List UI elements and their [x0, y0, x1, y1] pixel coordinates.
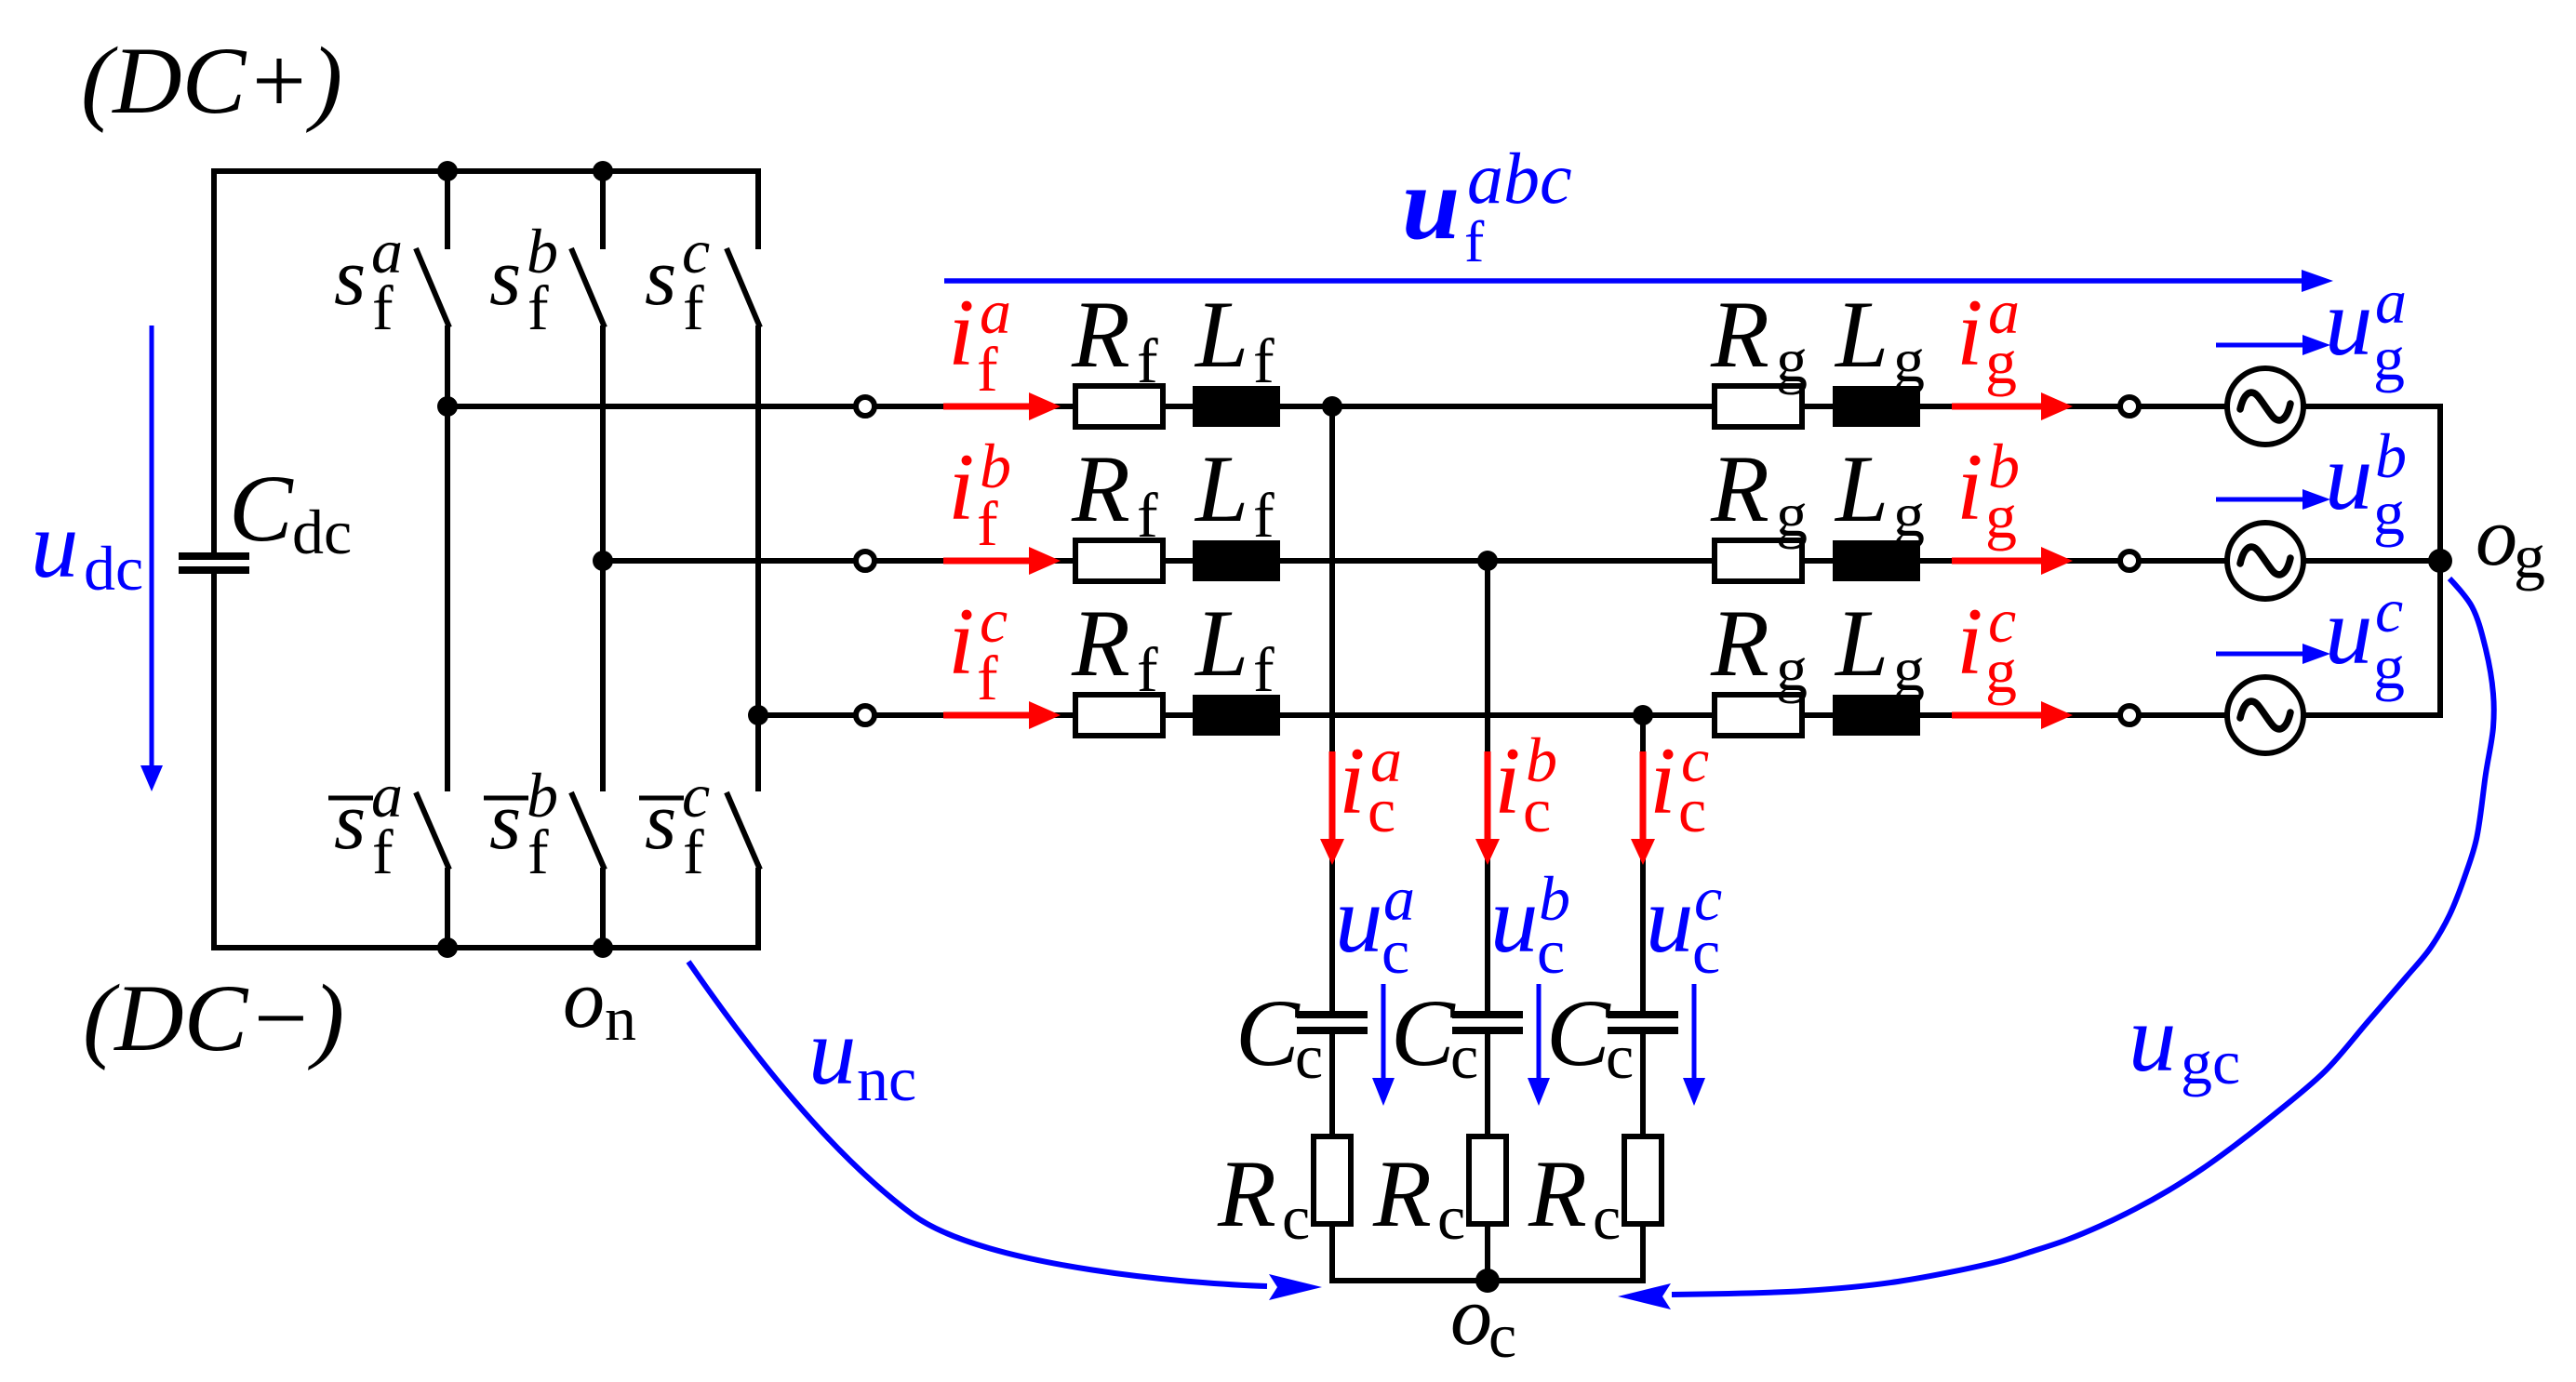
- current arrow i_c^b: [1475, 751, 1500, 865]
- terminal circle converter phase a: [856, 397, 874, 416]
- svg-text:g: g: [1985, 481, 2017, 551]
- svg-text:c: c: [1282, 1182, 1310, 1253]
- svg-text:R: R: [1071, 436, 1130, 542]
- svg-text:f: f: [1253, 480, 1275, 551]
- svg-text:i: i: [948, 589, 975, 695]
- svg-text:g: g: [1893, 633, 1925, 704]
- svg-text:g: g: [1776, 479, 1808, 550]
- wire DC bus left upper: [211, 168, 217, 554]
- label C_c phase a: [1235, 980, 1323, 1092]
- svg-text:f: f: [683, 272, 704, 343]
- svg-text:g: g: [2514, 521, 2545, 591]
- label L_g phase b: [1834, 436, 1925, 550]
- junction filter node a: [1322, 396, 1342, 417]
- switch sbar_f^c (lower): [727, 715, 760, 948]
- svg-text:u: u: [2325, 270, 2373, 376]
- svg-text:R: R: [1528, 1141, 1587, 1247]
- svg-text:s: s: [645, 233, 676, 323]
- svg-text:c: c: [1606, 1021, 1634, 1092]
- svg-text:s: s: [489, 777, 521, 867]
- svg-text:g: g: [2373, 323, 2405, 393]
- label u_c^c: [1646, 863, 1722, 987]
- wire phase c source to bus: [2303, 712, 2443, 718]
- label u_c^a: [1335, 863, 1415, 987]
- inductor L_g phase a: [1833, 386, 1920, 427]
- svg-text:u: u: [31, 492, 79, 598]
- resistor R_c phase a: [1314, 1136, 1351, 1224]
- svg-text:i: i: [1649, 728, 1676, 834]
- label R_g phase c: [1710, 591, 1808, 704]
- terminal circle grid phase c: [2120, 706, 2139, 724]
- svg-text:g: g: [1776, 325, 1808, 395]
- wire phase b source to bus: [2303, 558, 2440, 564]
- switch sbar_f^a (lower): [416, 406, 449, 948]
- svg-text:c: c: [1368, 775, 1395, 845]
- inductor L_f phase a: [1193, 386, 1280, 427]
- voltage arrow u_gc: [1618, 578, 2494, 1309]
- label L_f phase a: [1194, 282, 1275, 396]
- svg-text:R: R: [1372, 1141, 1432, 1247]
- svg-text:c: c: [1381, 916, 1409, 987]
- svg-text:R: R: [1710, 436, 1769, 542]
- svg-text:L: L: [1194, 591, 1248, 697]
- svg-text:u: u: [2129, 986, 2177, 1092]
- svg-text:i: i: [948, 280, 975, 386]
- label C_c phase b: [1391, 980, 1478, 1092]
- wire phase a terminal to grid source: [874, 404, 2227, 409]
- svg-text:f: f: [1253, 634, 1275, 705]
- node label (DC-): [83, 965, 344, 1071]
- label R_g phase b: [1710, 436, 1808, 550]
- svg-text:f: f: [1137, 480, 1158, 551]
- label L_g phase a: [1834, 282, 1925, 395]
- label s_f^a: [334, 216, 403, 343]
- wire branch b lower: [1485, 1224, 1490, 1281]
- svg-text:g: g: [1893, 325, 1925, 395]
- label u_g^b: [2325, 420, 2407, 548]
- wire phase c terminal to grid source: [874, 712, 2227, 718]
- label u_c^b: [1490, 863, 1570, 987]
- label i_f^b: [948, 431, 1011, 559]
- label sbar_f^c: [639, 760, 710, 887]
- wire phase a converter to terminal: [447, 404, 856, 409]
- label i_g^a: [1956, 276, 2020, 397]
- svg-text:C: C: [1235, 980, 1301, 1086]
- current arrow i_f^b: [943, 547, 1061, 575]
- label R_f phase b: [1071, 436, 1158, 551]
- terminal circle converter phase b: [856, 551, 874, 570]
- label i_c^c: [1649, 724, 1709, 845]
- svg-text:c: c: [1523, 775, 1551, 845]
- svg-text:R: R: [1217, 1141, 1276, 1247]
- label s_f^c: [645, 216, 710, 343]
- svg-text:L: L: [1194, 282, 1248, 388]
- voltage arrow u_nc: [688, 962, 1322, 1300]
- label i_c^a: [1339, 724, 1402, 845]
- voltage arrow u_g^c: [2216, 644, 2330, 664]
- svg-text:L: L: [1834, 436, 1889, 542]
- svg-text:i: i: [1494, 728, 1521, 834]
- svg-text:i: i: [1956, 589, 1983, 695]
- label u_g^c: [2325, 575, 2405, 702]
- svg-text:u: u: [2325, 424, 2373, 530]
- terminal circle grid phase b: [2120, 551, 2139, 570]
- svg-text:n: n: [605, 983, 636, 1054]
- label sbar_f^b: [484, 760, 558, 887]
- svg-text:o: o: [1450, 1270, 1492, 1362]
- svg-text:c: c: [1450, 1021, 1478, 1092]
- junction phase c node: [748, 705, 768, 725]
- node label o_n: [563, 953, 636, 1054]
- wire branch a lower: [1329, 1224, 1335, 1281]
- current arrow i_c^c: [1631, 751, 1655, 865]
- wire branch a mid: [1329, 1034, 1335, 1138]
- label R_f phase c: [1071, 591, 1158, 705]
- svg-text:f: f: [527, 272, 549, 343]
- switch sbar_f^b (lower): [571, 561, 605, 948]
- svg-text:u: u: [1402, 146, 1460, 261]
- svg-text:i: i: [1339, 728, 1366, 834]
- voltage arrow u_g^b: [2216, 489, 2330, 510]
- svg-text:g: g: [2373, 631, 2405, 702]
- current arrow i_f^c: [943, 701, 1061, 729]
- svg-text:dc: dc: [84, 533, 143, 604]
- resistor R_f phase c: [1075, 695, 1163, 736]
- svg-text:L: L: [1194, 436, 1248, 542]
- label i_c^b: [1494, 724, 1557, 845]
- svg-text:dc: dc: [292, 497, 352, 567]
- voltage arrow u_c^a: [1372, 984, 1395, 1106]
- svg-text:s: s: [334, 233, 366, 323]
- label i_g^b: [1956, 431, 2020, 551]
- voltage arrow u_dc: [140, 326, 163, 791]
- label u_f^abc: [1402, 138, 1572, 274]
- junction filter node c: [1633, 705, 1653, 725]
- svg-text:f: f: [977, 488, 998, 559]
- svg-text:R: R: [1071, 591, 1130, 697]
- svg-text:R: R: [1071, 282, 1130, 388]
- svg-text:c: c: [1593, 1182, 1621, 1253]
- switch s_f^b (upper): [571, 171, 605, 564]
- svg-text:f: f: [977, 334, 998, 405]
- svg-text:o: o: [563, 953, 605, 1045]
- wire DC- bottom rail: [211, 945, 761, 950]
- wire branch b upper: [1485, 561, 1490, 1013]
- resistor R_g phase a: [1715, 386, 1802, 427]
- terminal circle grid phase a: [2120, 397, 2139, 416]
- inductor L_g phase c: [1833, 695, 1920, 736]
- voltage arrow u_g^a: [2216, 335, 2330, 355]
- ac source u_g^b: [2227, 523, 2303, 599]
- svg-text:u: u: [808, 999, 857, 1105]
- svg-text:C: C: [1391, 980, 1456, 1086]
- junction filter node b: [1477, 551, 1498, 571]
- wire right bus: [2437, 404, 2443, 718]
- terminal circle converter phase c: [856, 706, 874, 724]
- svg-text:u: u: [2325, 578, 2373, 684]
- wire branch c mid: [1640, 1034, 1646, 1138]
- svg-text:c: c: [1537, 916, 1565, 987]
- svg-text:nc: nc: [857, 1043, 916, 1114]
- svg-text:f: f: [1464, 208, 1485, 274]
- label R_c phase b: [1372, 1141, 1465, 1253]
- inductor L_g phase b: [1833, 540, 1920, 581]
- label s_f^b: [489, 216, 558, 343]
- node label o_c: [1450, 1270, 1516, 1371]
- junction bottom rail leg b: [593, 937, 613, 958]
- label R_g phase a: [1710, 282, 1808, 395]
- resistor R_g phase c: [1715, 695, 1802, 736]
- svg-text:i: i: [1956, 280, 1983, 386]
- capacitor Cdc: [179, 552, 249, 574]
- svg-text:c: c: [1437, 1182, 1465, 1253]
- wire branch b mid: [1485, 1034, 1490, 1138]
- voltage arrow u_c^b: [1528, 984, 1550, 1106]
- label Cdc: [229, 456, 352, 567]
- current arrow i_f^a: [943, 392, 1061, 420]
- junction bottom rail leg a: [437, 937, 458, 958]
- svg-text:c: c: [1295, 1021, 1323, 1092]
- capacitor C_c phase c: [1608, 1011, 1678, 1034]
- svg-text:g: g: [1985, 326, 2017, 397]
- label C_c phase c: [1546, 980, 1634, 1092]
- svg-text:u: u: [1646, 867, 1694, 973]
- label u_gc: [2129, 986, 2240, 1097]
- svg-text:u: u: [1335, 867, 1383, 973]
- svg-text:C: C: [1546, 980, 1611, 1086]
- voltage arrow u_f^abc: [944, 270, 2333, 292]
- inductor L_f phase c: [1193, 695, 1280, 736]
- wire branch c upper: [1640, 715, 1646, 1013]
- resistor R_g phase b: [1715, 540, 1802, 581]
- svg-text:C: C: [229, 456, 294, 562]
- wire capacitor star rail: [1329, 1278, 1646, 1283]
- svg-text:o: o: [2476, 491, 2517, 583]
- wire branch a upper: [1329, 406, 1335, 1013]
- svg-text:L: L: [1834, 591, 1889, 697]
- capacitor C_c phase a: [1297, 1011, 1368, 1034]
- svg-text:i: i: [948, 434, 975, 540]
- node label o_g: [2476, 491, 2545, 591]
- switch s_f^a (upper): [416, 171, 449, 409]
- node label (DC+): [81, 28, 342, 134]
- svg-text:f: f: [372, 817, 394, 887]
- label i_f^a: [948, 276, 1011, 405]
- svg-text:f: f: [372, 272, 394, 343]
- resistor R_c phase b: [1469, 1136, 1506, 1224]
- svg-text:L: L: [1834, 282, 1889, 388]
- svg-text:i: i: [1956, 434, 1983, 540]
- svg-text:s: s: [489, 233, 521, 323]
- svg-text:(DC+): (DC+): [81, 28, 342, 134]
- wire branch c lower: [1640, 1224, 1646, 1281]
- svg-text:(DC−): (DC−): [83, 965, 344, 1071]
- svg-text:s: s: [645, 777, 676, 867]
- svg-text:f: f: [1253, 326, 1275, 396]
- inductor L_f phase b: [1193, 540, 1280, 581]
- label L_g phase c: [1834, 591, 1925, 704]
- svg-text:s: s: [334, 777, 366, 867]
- wire DC bus left lower: [211, 572, 217, 950]
- ac source u_g^c: [2227, 677, 2303, 753]
- wire phase b converter to terminal: [603, 558, 856, 564]
- label L_f phase c: [1194, 591, 1275, 705]
- ac source u_g^a: [2227, 368, 2303, 445]
- current arrow i_g^c: [1952, 701, 2073, 729]
- junction phase a node: [437, 396, 458, 417]
- svg-text:f: f: [1137, 634, 1158, 705]
- node o_g: [2428, 549, 2452, 573]
- svg-text:u: u: [1490, 867, 1539, 973]
- wire DC+ top rail: [211, 168, 761, 174]
- label L_f phase b: [1194, 436, 1275, 551]
- label u_g^a: [2325, 266, 2407, 393]
- svg-text:g: g: [1893, 479, 1925, 550]
- label u_dc: [31, 492, 143, 604]
- node o_c: [1475, 1269, 1500, 1293]
- wire phase b terminal to grid source: [874, 558, 2227, 564]
- svg-text:f: f: [527, 817, 549, 887]
- junction top rail leg b: [593, 161, 613, 181]
- junction phase b node: [593, 551, 613, 571]
- wire phase c converter to terminal: [758, 712, 856, 718]
- resistor R_f phase b: [1075, 540, 1163, 581]
- label i_f^c: [948, 585, 1008, 713]
- label i_g^c: [1956, 585, 2017, 706]
- label R_f phase a: [1071, 282, 1158, 396]
- capacitor C_c phase b: [1452, 1011, 1523, 1034]
- resistor R_f phase a: [1075, 386, 1163, 427]
- svg-text:g: g: [2373, 477, 2405, 548]
- wire phase a source to bus: [2303, 404, 2443, 409]
- svg-text:g: g: [1985, 635, 2017, 706]
- current arrow i_g^b: [1952, 547, 2073, 575]
- current arrow i_c^a: [1320, 751, 1344, 865]
- svg-text:c: c: [1678, 775, 1706, 845]
- switch s_f^c (upper): [727, 171, 760, 718]
- label R_c phase a: [1217, 1141, 1310, 1253]
- svg-text:gc: gc: [2181, 1027, 2240, 1097]
- svg-text:f: f: [977, 643, 998, 713]
- svg-text:c: c: [1692, 916, 1720, 987]
- svg-text:R: R: [1710, 282, 1769, 388]
- junction top rail leg a: [437, 161, 458, 181]
- svg-text:R: R: [1710, 591, 1769, 697]
- label R_c phase c: [1528, 1141, 1621, 1253]
- label sbar_f^a: [328, 760, 403, 887]
- svg-text:abc: abc: [1467, 138, 1572, 219]
- svg-text:f: f: [1137, 326, 1158, 396]
- current arrow i_g^a: [1952, 392, 2073, 420]
- resistor R_c phase c: [1624, 1136, 1662, 1224]
- svg-text:c: c: [1488, 1300, 1516, 1371]
- svg-text:g: g: [1776, 633, 1808, 704]
- svg-text:f: f: [683, 817, 704, 887]
- label u_nc: [808, 999, 916, 1114]
- voltage arrow u_c^c: [1683, 984, 1705, 1106]
